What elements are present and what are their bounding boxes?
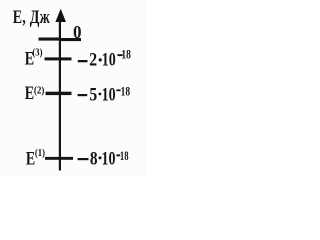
svg-text:2: 2 [89,48,97,70]
value -5e-18 [78,83,131,105]
node E(3) label [25,47,43,70]
tick E(1) [45,157,73,160]
svg-text:18: 18 [121,85,131,99]
tick E(2) [46,92,72,95]
svg-text:E: E [26,147,35,169]
svg-text:10: 10 [102,48,116,70]
tick 0 left [39,38,62,41]
svg-text:E: E [25,82,34,104]
node 0 label [73,21,82,42]
svg-text:(2): (2) [34,85,45,97]
tick E(3) [45,57,72,60]
node E(2) label [25,82,45,104]
svg-text:18: 18 [120,149,129,163]
node E(1) label [26,147,45,169]
axis vertical line [59,20,61,171]
tick 0 right underline [59,38,81,41]
svg-text:(1): (1) [35,147,45,159]
value -8e-18 [78,147,129,169]
svg-text:18: 18 [121,48,131,62]
axis arrow head [55,9,66,22]
svg-text:5: 5 [89,83,97,105]
axis label E, Дж [13,6,51,28]
value -2e-18 [78,48,131,70]
svg-text:8: 8 [90,148,98,169]
svg-text:10: 10 [102,147,116,169]
svg-text:(3): (3) [32,47,42,59]
svg-text:Е, Дж: Е, Дж [13,6,51,28]
svg-text:10: 10 [102,83,116,105]
